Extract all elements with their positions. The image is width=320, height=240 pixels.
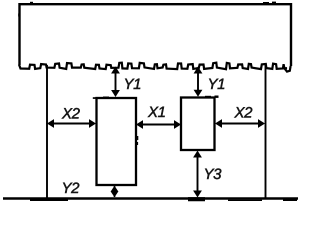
scan noise specks xyxy=(188,197,205,201)
left pad rectangle xyxy=(97,98,137,185)
dimension X2 right: arrow xyxy=(215,119,265,128)
dimension Y2: stacked arrowheads between left pad bottom and baseline xyxy=(111,186,119,198)
left vertical line (lead) xyxy=(46,65,48,198)
dimension Y1 left: arrow xyxy=(111,67,120,98)
svg-text:X2: X2 xyxy=(233,104,253,121)
svg-text:Y3: Y3 xyxy=(203,166,222,183)
svg-text:Y1: Y1 xyxy=(123,76,141,93)
svg-text:X2: X2 xyxy=(61,105,81,122)
dimension X2 left: arrow xyxy=(47,119,96,128)
baseline (board surface) xyxy=(3,197,298,200)
svg-text:Y1: Y1 xyxy=(207,76,225,93)
wavy torn bottom edge of top rectangle xyxy=(19,63,291,72)
dimension Y1 right: arrow xyxy=(194,67,203,97)
right pad rectangle xyxy=(181,98,215,151)
right vertical line (lead) xyxy=(265,65,267,198)
svg-text:X1: X1 xyxy=(147,104,166,121)
dimension X1: arrow xyxy=(136,120,181,129)
dimension Y3: arrow from right pad bottom to baseline xyxy=(193,151,202,198)
top rectangle (component body, torn bottom edge) xyxy=(19,4,291,71)
svg-text:Y2: Y2 xyxy=(61,180,80,197)
